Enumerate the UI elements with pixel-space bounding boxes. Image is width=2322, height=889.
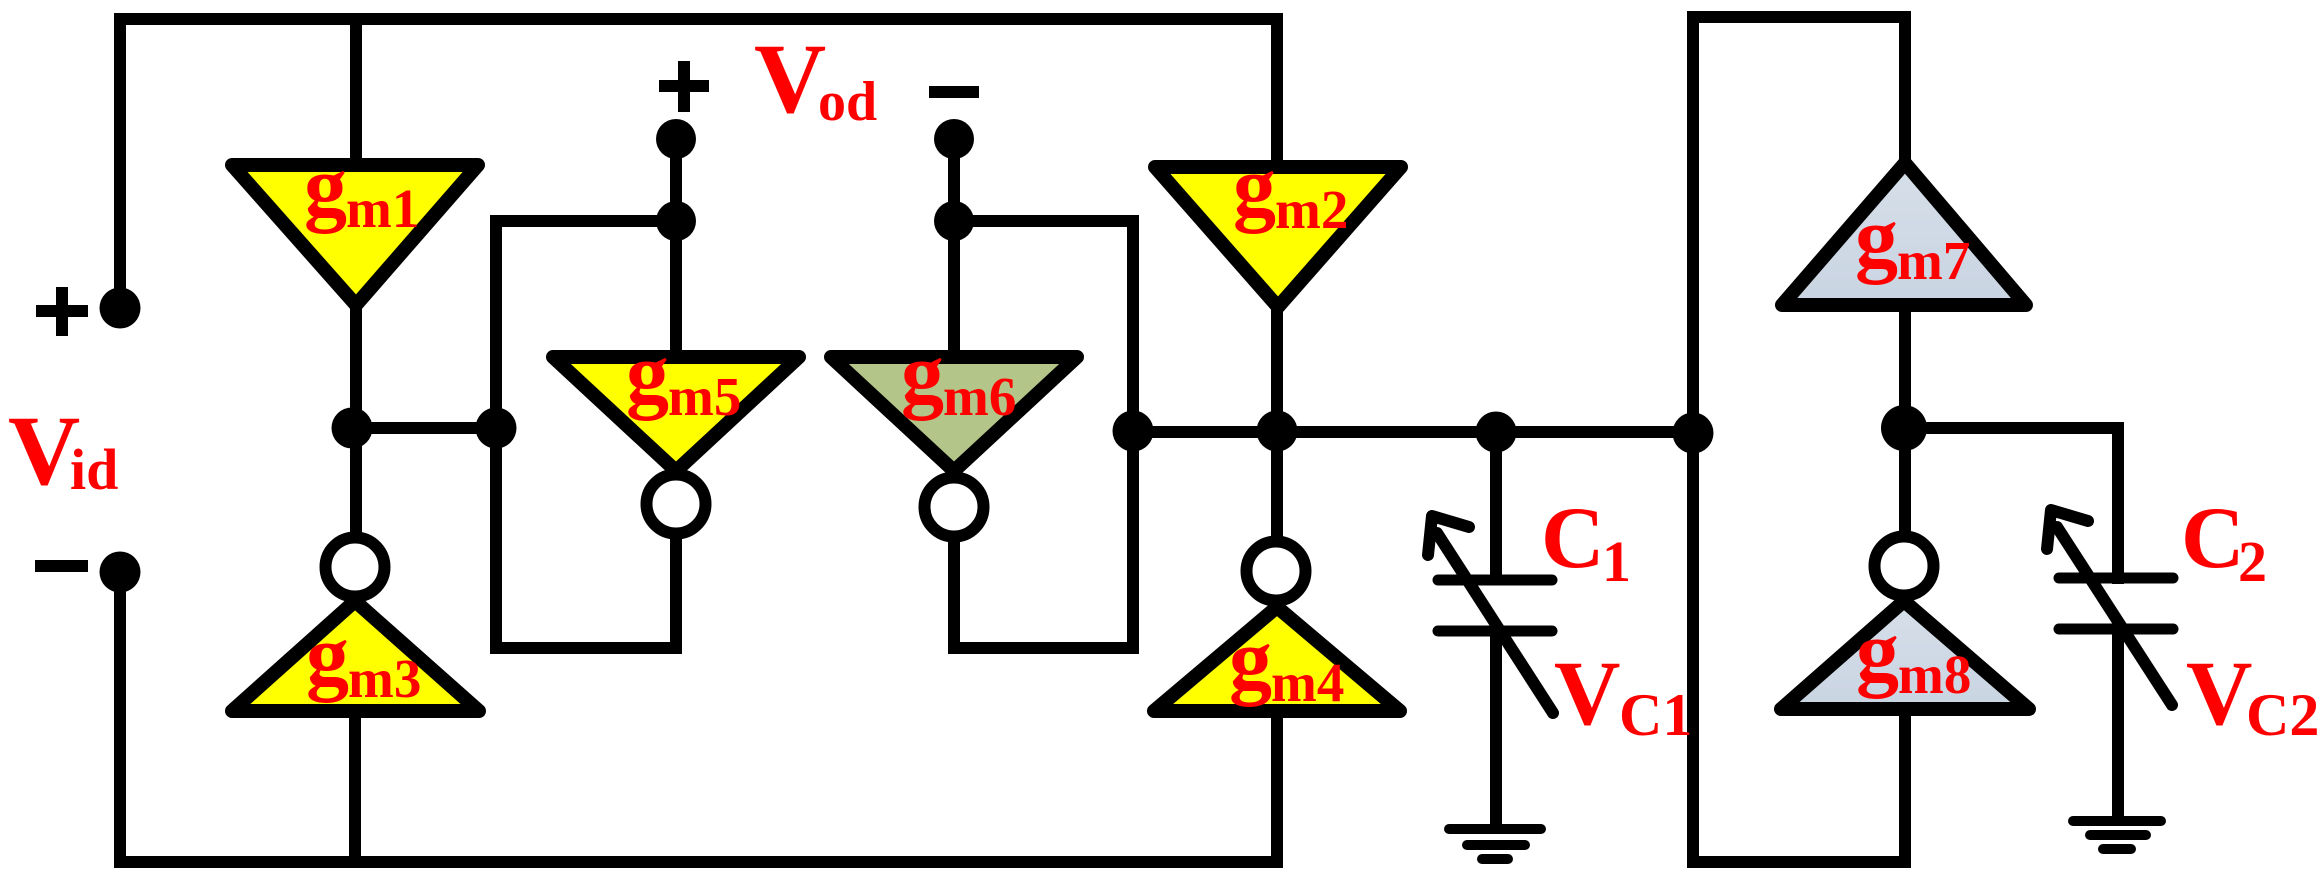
svg-text:g: g — [901, 325, 944, 421]
wire C1 to ground — [1490, 628, 1502, 831]
label VC1 — [1554, 642, 1692, 748]
wire gm1 output to gm3 input — [350, 300, 362, 540]
wire bottom bus from Vid- to gm4 output — [120, 567, 1277, 862]
node Vid- — [100, 552, 141, 593]
wire top bus from Vid+ up across to gm2 input — [120, 19, 1277, 310]
svg-text:m2: m2 — [1275, 179, 1348, 240]
op-amp gm2 — [1155, 138, 1401, 307]
node Vid+ — [100, 288, 141, 329]
svg-text:V: V — [2186, 642, 2252, 744]
capacitor C1 (variable) — [1428, 516, 1553, 713]
label VC2 — [2186, 642, 2319, 748]
svg-text:m5: m5 — [668, 366, 741, 427]
label Vod — [754, 23, 877, 134]
svg-text:g: g — [626, 325, 669, 421]
svg-text:C1: C1 — [1619, 682, 1692, 748]
label C2 — [2181, 490, 2267, 594]
wire Vod- branch down to gm6 input — [948, 139, 960, 360]
svg-text:g: g — [1229, 611, 1272, 707]
junction Vod- / gm6 loop — [934, 201, 974, 241]
op-amp gm1 — [232, 138, 478, 305]
svg-text:g: g — [1233, 138, 1276, 234]
wire gm2 output to gm4 input — [1271, 304, 1283, 542]
node Vod- terminal — [934, 119, 974, 159]
wire Vod+ branch down to gm5 input — [670, 139, 682, 360]
svg-text:1: 1 — [1602, 529, 1631, 594]
junction right loop bus — [1673, 413, 1714, 454]
svg-text:m7: m7 — [1897, 230, 1970, 291]
svg-text:m8: m8 — [1898, 644, 1971, 705]
junction gm5 loop bus — [476, 408, 517, 449]
wire C2 to ground — [2112, 625, 2124, 823]
svg-text:2: 2 — [2238, 529, 2267, 594]
wire left bus segment — [352, 422, 498, 434]
label Vid — [8, 395, 118, 506]
svg-text:m6: m6 — [943, 366, 1016, 427]
op-amp gm8 — [1781, 537, 2029, 710]
wire right loop: top bus2, gm7 input drop, left vertical down and bottom to gm8 output — [1693, 17, 1905, 862]
op-amp gm7 — [1782, 163, 2026, 305]
wire gm3 output down to bottom bus — [349, 712, 361, 862]
svg-text:C: C — [2181, 490, 2245, 587]
wire gm6 feedback loop — [954, 221, 1133, 648]
op-amp gm3 — [232, 538, 479, 712]
junction gm2 output bus — [1257, 411, 1298, 452]
junction C1 bus — [1476, 412, 1517, 453]
wire gm1 input drop from top bus — [350, 19, 362, 168]
minus sign Vod- — [929, 86, 979, 98]
svg-text:V: V — [754, 23, 826, 134]
wire main right bus (ends at right-loop junction) — [1133, 426, 1693, 438]
plus sign Vid+ — [36, 287, 88, 336]
svg-text:C2: C2 — [2246, 682, 2319, 748]
wire C1 feed from bus — [1490, 430, 1502, 584]
op-amp gm4 — [1154, 542, 1400, 714]
ground for C1 — [1449, 829, 1541, 859]
wire gm5 feedback loop — [496, 221, 676, 648]
svg-text:id: id — [70, 437, 118, 502]
svg-text:m3: m3 — [348, 648, 421, 709]
svg-text:C: C — [1541, 490, 1605, 587]
wire gm7 node to C2 feed — [1904, 428, 2118, 584]
svg-text:g: g — [304, 138, 347, 234]
junction Vod+ / gm5 loop — [656, 201, 696, 241]
junction gm1 output bus — [332, 408, 373, 449]
svg-text:od: od — [818, 71, 877, 133]
svg-text:g: g — [1855, 189, 1898, 285]
svg-text:m1: m1 — [346, 178, 419, 239]
capacitor C2 (variable) — [2047, 510, 2173, 705]
op-amp gm6 — [831, 325, 1077, 537]
svg-text:g: g — [1856, 603, 1899, 699]
ground for C2 — [2073, 821, 2161, 849]
minus sign Vid- — [35, 560, 88, 572]
node Vod+ terminal — [656, 119, 696, 159]
svg-text:V: V — [1554, 642, 1620, 744]
svg-text:m4: m4 — [1271, 652, 1344, 713]
label C1 — [1541, 490, 1631, 594]
junction gm6 loop right bus — [1113, 411, 1154, 452]
svg-text:g: g — [306, 607, 349, 703]
junction gm7 output node — [1881, 405, 1927, 451]
plus sign Vod+ — [659, 61, 709, 112]
wire gm7 output down to node and gm8 input — [1899, 308, 1911, 535]
op-amp gm5 — [553, 325, 799, 534]
